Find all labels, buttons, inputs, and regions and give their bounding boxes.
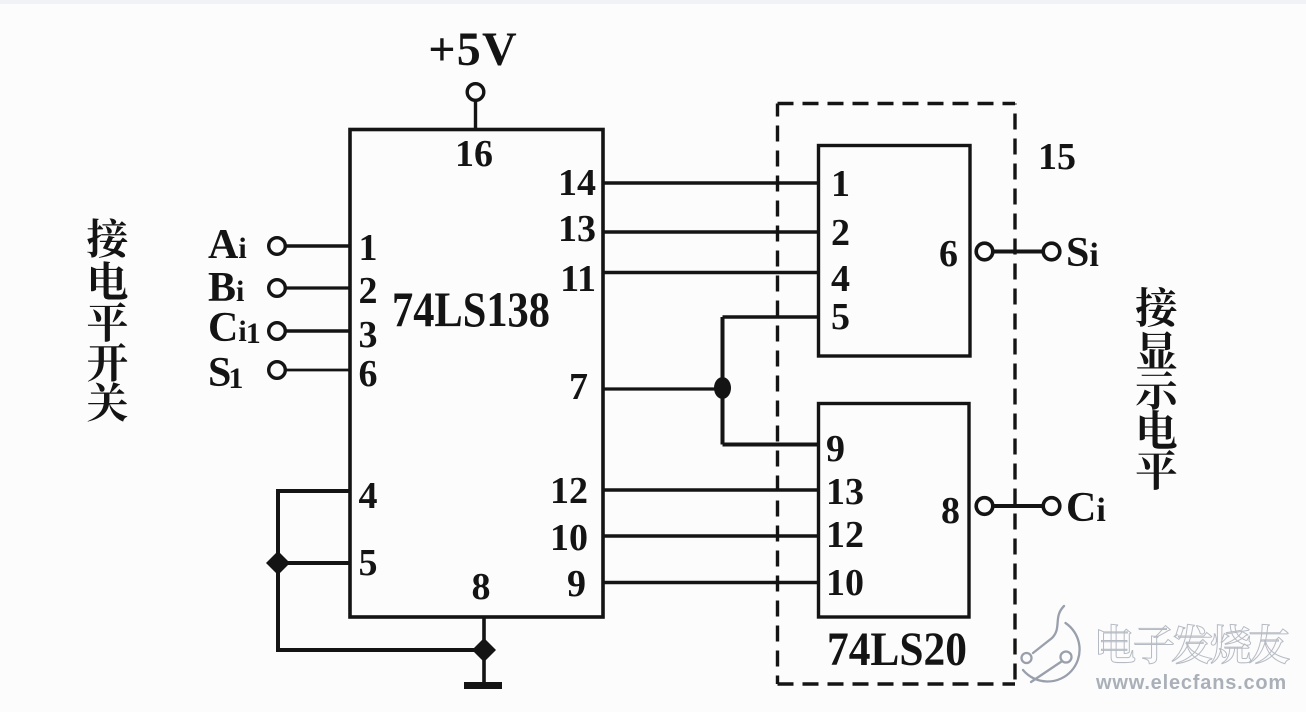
dashed enclosure U2 bottom edge xyxy=(778,682,1016,685)
watermark text 电子发烧友 xyxy=(1098,624,1289,663)
terminal Ci-1 xyxy=(269,323,286,340)
svg-text:5: 5 xyxy=(359,542,378,584)
wire y650 to ground node xyxy=(276,648,484,652)
junction ground node xyxy=(472,638,496,662)
svg-text:74LS138: 74LS138 xyxy=(392,281,550,337)
svg-text:6: 6 xyxy=(939,233,958,275)
svg-text:4: 4 xyxy=(831,258,850,300)
terminal +5V xyxy=(467,84,484,101)
wire U1 pin4 left xyxy=(278,489,350,493)
svg-text:6: 6 xyxy=(359,353,378,395)
gate U2A body (74LS20 half) xyxy=(819,146,971,357)
wire U2A pin6 out xyxy=(993,250,1044,254)
svg-text:7: 7 xyxy=(569,366,588,408)
junction pins4-5 xyxy=(266,551,290,575)
svg-text:4: 4 xyxy=(359,475,378,517)
svg-text:12: 12 xyxy=(550,470,588,512)
gate U2B body (74LS20 half) xyxy=(819,404,970,618)
svg-text:8: 8 xyxy=(472,566,491,608)
wire U1 pin11 to U2A pin4 xyxy=(603,271,818,274)
wire U1 pin5 left xyxy=(278,561,350,565)
terminal Bi xyxy=(269,280,286,297)
terminal Ai xyxy=(269,238,286,255)
wire U1 pin8 down xyxy=(482,617,486,683)
svg-text:5: 5 xyxy=(831,296,850,338)
watermark logo xyxy=(1022,606,1080,682)
wire node to U2A pin5 xyxy=(723,315,819,318)
U2B output bubble xyxy=(976,498,993,515)
wire U1 pin7 to node xyxy=(603,387,723,390)
wire U1 pin13 to U2A pin2 xyxy=(603,230,818,233)
terminal S1 xyxy=(269,362,286,379)
wire U1 pin9 to U2B pin10 xyxy=(603,581,818,585)
dashed enclosure U2 right edge xyxy=(1013,104,1016,685)
wire vertical x278 xyxy=(276,489,280,652)
svg-text:74LS20: 74LS20 xyxy=(827,623,967,676)
wire Ai to U1 pin1 xyxy=(285,244,350,247)
svg-text:1: 1 xyxy=(359,227,378,269)
wire U2B pin8 out xyxy=(993,504,1044,508)
svg-text:15: 15 xyxy=(1038,136,1076,178)
svg-text:Si: Si xyxy=(1066,230,1099,276)
terminal Ci xyxy=(1043,498,1060,515)
svg-text:2: 2 xyxy=(359,270,378,312)
wire node to U2B pin9 xyxy=(723,443,819,447)
svg-text:Ci: Ci xyxy=(1066,485,1106,531)
svg-text:11: 11 xyxy=(560,258,596,300)
junction node pin7 xyxy=(714,377,731,399)
svg-text:13: 13 xyxy=(558,208,596,250)
top edge tint xyxy=(0,0,1306,4)
ground xyxy=(464,682,502,689)
svg-text:+5V: +5V xyxy=(428,23,518,76)
terminal Si xyxy=(1043,243,1060,260)
wire +5V to U1 pin16 xyxy=(474,101,477,131)
wire U1 pin14 to U2A pin1 xyxy=(603,181,818,185)
svg-text:14: 14 xyxy=(558,162,596,204)
svg-text:www.elecfans.com: www.elecfans.com xyxy=(1095,672,1287,694)
dashed enclosure U2 top edge xyxy=(778,102,1016,105)
wire S1 to U1 pin6 xyxy=(285,369,350,372)
svg-text:13: 13 xyxy=(826,471,864,513)
wire Ci-1 to U1 pin3 xyxy=(285,329,350,333)
svg-text:9: 9 xyxy=(567,563,586,605)
wire U1 pin12 to U2B pin13 xyxy=(603,488,818,491)
svg-text:10: 10 xyxy=(550,517,588,559)
svg-text:8: 8 xyxy=(941,490,960,532)
caption right: 接显示电平 (connect display level) xyxy=(1136,287,1177,490)
svg-text:9: 9 xyxy=(826,428,845,470)
dashed enclosure U2 left edge xyxy=(776,104,779,685)
svg-text:1: 1 xyxy=(831,163,850,205)
svg-text:2: 2 xyxy=(831,212,850,254)
wire node vertical xyxy=(721,317,725,445)
svg-text:10: 10 xyxy=(826,562,864,604)
wire Bi to U1 pin2 xyxy=(285,286,350,289)
svg-text:3: 3 xyxy=(359,314,378,356)
IC U1 74LS138 body xyxy=(350,130,603,618)
U2A output bubble xyxy=(976,243,993,260)
caption left: 接电平开关 (connect level switches) xyxy=(87,218,127,421)
svg-text:16: 16 xyxy=(455,133,493,175)
wire U1 pin10 to U2B pin12 xyxy=(603,534,818,538)
svg-text:12: 12 xyxy=(826,514,864,556)
